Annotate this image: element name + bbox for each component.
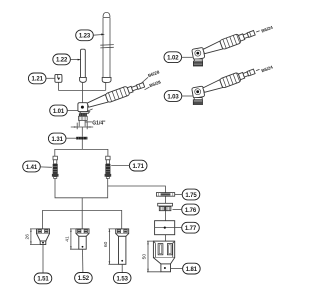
rod 1.22 [80, 49, 87, 82]
wire rod1.22 drop [81, 82, 83, 90]
wire distribution [43, 210, 122, 229]
ratchet 1.02 [192, 26, 262, 66]
svg-text:41: 41 [64, 236, 70, 242]
wire rod1.23 drop [105, 83, 107, 91]
nozzle 1.71 [105, 156, 112, 178]
callout 1.23 [76, 30, 105, 41]
svg-text:1.77: 1.77 [185, 226, 197, 232]
rod 1.23 [100, 12, 114, 82]
svg-text:1.76: 1.76 [185, 208, 197, 214]
svg-text:60: 60 [103, 241, 109, 247]
svg-text:1.02: 1.02 [167, 56, 179, 62]
svg-text:1.81: 1.81 [186, 267, 198, 273]
pipe below thread [79, 120, 85, 126]
svg-text:1.53: 1.53 [117, 276, 129, 282]
spray nozzle 1.51 [37, 229, 50, 245]
wire valve drop [57, 82, 59, 90]
callout 1.01 [50, 105, 78, 116]
wire bus [58, 90, 105, 102]
spray nozzle 1.52 [76, 229, 89, 249]
svg-text:1.75: 1.75 [185, 193, 197, 199]
wire seal to manifold [81, 140, 83, 150]
callout 1.21 [28, 73, 55, 84]
cylinder 1.77 [155, 221, 175, 235]
svg-text:1.01: 1.01 [53, 109, 65, 115]
callout 1.81 [171, 263, 201, 274]
collar 1.01 [80, 112, 90, 114]
svg-text:1.31: 1.31 [52, 137, 64, 143]
dim 41 [64, 229, 79, 249]
svg-text:1.52: 1.52 [78, 276, 90, 282]
callout 1.22 [53, 54, 82, 65]
valve 1.21 [55, 74, 62, 82]
spray nozzle 1.53 [116, 229, 129, 264]
label B6/28 upper [141, 69, 160, 83]
wire box [55, 178, 108, 197]
knurl band 1.01 [79, 113, 87, 116]
callout 1.52 [75, 249, 93, 283]
wire center to seal [81, 127, 83, 137]
wire center drop [81, 198, 83, 229]
callout 1.76 [173, 204, 200, 215]
label B6/28 lower [145, 79, 162, 90]
washer 1.75 [156, 193, 174, 197]
callout 1.53 [113, 264, 131, 283]
wire branch to stack [108, 186, 166, 241]
svg-text:1.21: 1.21 [32, 77, 44, 83]
callout 1.41 [23, 161, 52, 172]
callout 1.77 [175, 222, 200, 233]
callout 1.71 [111, 160, 147, 171]
nut 1.76 [158, 203, 173, 210]
svg-text:1.22: 1.22 [56, 58, 68, 64]
strainer 1.81 [153, 241, 174, 272]
svg-text:1.71: 1.71 [133, 164, 145, 170]
ratchet 1.03 [192, 65, 262, 105]
seal 1.31 [76, 137, 87, 140]
svg-text:1.03: 1.03 [167, 94, 179, 100]
callout 1.75 [175, 189, 200, 200]
callout 1.51 [34, 245, 52, 284]
svg-text:1.41: 1.41 [26, 165, 38, 171]
callout 1.02 [164, 52, 193, 63]
nozzle 1.41 [52, 156, 59, 178]
dim 50 [141, 241, 161, 272]
svg-text:26: 26 [24, 234, 30, 240]
thread G1/4 [79, 116, 88, 120]
svg-text:50: 50 [141, 254, 147, 260]
op joint 1.01 head [78, 103, 94, 112]
svg-text:1.51: 1.51 [37, 277, 49, 283]
callout 1.31 [48, 133, 76, 144]
svg-text:G1/4": G1/4" [92, 120, 106, 126]
dim 26 [24, 229, 40, 245]
shaft of ratchet 1.01 [86, 80, 145, 109]
dim 60 [103, 229, 119, 264]
callout 1.03 [164, 91, 192, 102]
svg-text:1.23: 1.23 [79, 34, 91, 40]
dim G1/4 [71, 120, 106, 129]
wire manifold top [55, 149, 108, 156]
